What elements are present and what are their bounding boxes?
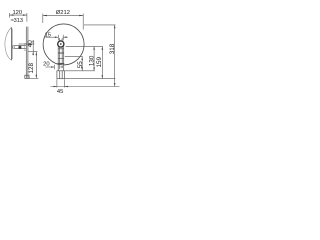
svg-text:Ø212: Ø212 — [56, 10, 70, 16]
svg-text:≈313: ≈313 — [11, 18, 23, 24]
svg-text:40: 40 — [27, 40, 34, 48]
svg-text:15: 15 — [45, 33, 51, 39]
svg-text:318: 318 — [109, 43, 116, 54]
svg-text:55: 55 — [77, 61, 84, 69]
svg-text:20: 20 — [43, 61, 49, 67]
svg-text:45: 45 — [57, 89, 63, 95]
svg-text:159: 159 — [96, 57, 103, 68]
svg-text:130: 130 — [88, 55, 95, 66]
svg-text:120: 120 — [12, 10, 22, 16]
svg-text:128: 128 — [28, 62, 35, 73]
